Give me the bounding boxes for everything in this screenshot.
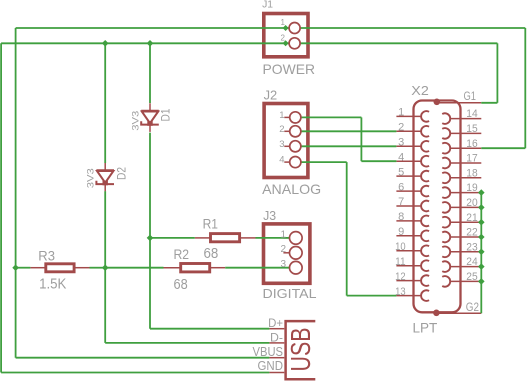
svg-text:5: 5 [398,166,404,178]
svg-text:68: 68 [174,277,188,293]
wire R3 to net D- [90,267,106,269]
X2 pin 5 stub [396,175,421,177]
diode D2 apex junction [103,181,108,186]
junction D+/R1 [147,235,154,242]
junction J1 pin2 [283,40,289,46]
X2 pin 23 contact arc [442,247,450,258]
J3 pin 2 stub [283,252,290,254]
X2 shield pin G2 [437,312,482,314]
svg-text:ANALOG: ANALOG [262,181,321,197]
J3 pin 3 stub [283,267,290,269]
svg-text:D-: D- [270,330,283,344]
USB pin D- stub [269,342,284,344]
junction X2 pin19 [478,189,485,196]
J2 pin 2 circle [290,126,301,137]
X2 pin 3 contact arc [421,141,429,152]
X2 pin 19 contact arc [442,187,450,198]
resistor R2 lead right [210,267,226,269]
X2 pin 7 stub [396,205,421,207]
svg-text:15: 15 [466,123,477,135]
USB pin VBUS stub [269,357,284,359]
junction GND/D1 [147,40,154,47]
X2 pin 24 stub [450,266,481,268]
wire net D+ to USB [150,328,269,330]
J2 pin 2 stub [284,130,290,132]
svg-text:2: 2 [281,244,287,255]
wire net VBUS left vertical [15,28,17,358]
J1 pin 2 circle [289,38,300,49]
X2 pin 12 stub [396,280,421,282]
svg-text:23: 23 [466,241,477,253]
svg-text:8: 8 [398,211,404,223]
wire to X2 pin13 [347,295,397,297]
wire R2 to J3 pin3 [225,267,290,269]
svg-text:9: 9 [398,226,404,238]
wire net GND to USB [1,372,269,374]
connector USB outline [286,321,316,379]
X2 pin 21 contact arc [442,217,450,228]
X2 pin 5 contact arc [421,171,429,182]
diode D1 stub bottom [149,124,151,132]
resistor R3 lead right [74,267,89,269]
wire to X2 pin4 [361,160,396,162]
svg-text:G2: G2 [466,300,479,314]
svg-text:25: 25 [466,271,477,283]
diode D1 cathode zener bar [141,121,159,124]
X2 pin 11 stub [396,265,421,267]
svg-text:3V3: 3V3 [130,111,141,131]
X2 pin 1 contact arc [421,111,429,122]
diode D2 stub top [104,163,106,172]
svg-text:1: 1 [281,229,287,240]
X2 pin 18 stub [450,177,481,179]
resistor R2 lead left [164,267,181,269]
junction D-/R3/R2 [102,264,109,271]
connector X2 body [414,101,461,313]
resistor R1 body [211,234,240,242]
X2 pin 10 contact arc [421,246,429,257]
svg-text:19: 19 [466,182,477,194]
diode D1 anode bar [141,110,159,112]
wire J2 pin1 horizontal [301,116,362,118]
svg-text:1.5K: 1.5K [39,277,67,293]
svg-text:24: 24 [466,256,477,268]
wire net VBUS to USB [16,357,270,359]
svg-text:1: 1 [398,107,404,119]
resistor R1 lead left [195,237,211,239]
junction J1 pin1 [283,25,289,31]
svg-text:4: 4 [279,155,284,166]
X2 pin 25 stub [450,280,481,282]
J3 pin 3 circle [290,261,303,274]
svg-text:X2: X2 [411,84,429,98]
USB pin GND stub [269,372,284,374]
svg-text:USB: USB [285,328,316,372]
wire net D- to USB [105,342,269,344]
wire VBUS to R3 [16,267,31,269]
svg-text:R1: R1 [203,217,218,232]
svg-text:D2: D2 [115,167,129,180]
diode D2 cathode zener bar [96,181,114,184]
X2 shield pin G1 [437,102,481,104]
svg-text:VBUS: VBUS [253,344,284,359]
wire net GND right vertical to G1 [496,43,498,103]
svg-text:17: 17 [466,153,477,165]
X2 pin 13 contact arc [421,290,429,301]
USB pin D+ stub [269,328,284,330]
wire net GND to X2 G1 [481,102,497,104]
svg-text:12: 12 [395,271,406,283]
wire net D+ vertical [149,133,151,329]
wire net VBUS top horizontal [16,27,526,29]
diode D2 triangle [97,171,113,183]
svg-text:16: 16 [466,138,477,150]
svg-text:6: 6 [398,181,404,193]
J2 pin 3 stub [284,145,290,147]
resistor R3 lead left [30,267,45,269]
junction X2 pin21 [478,219,485,226]
X2 pin 14 stub [450,118,481,120]
diode D1 apex junction [147,121,152,126]
svg-text:1: 1 [279,110,284,121]
svg-text:3V3: 3V3 [86,168,97,188]
J3 pin 2 circle [290,247,303,260]
X2 pin 3 stub [396,145,421,147]
junction VBUS/R3 [12,264,19,271]
svg-text:10: 10 [395,241,406,253]
svg-text:2: 2 [398,122,404,134]
svg-text:POWER: POWER [263,61,316,77]
J2 pin 1 circle [290,112,301,123]
J1 pin 1 circle [289,23,300,34]
X2 pin 25 contact arc [442,276,450,287]
svg-text:21: 21 [466,212,477,224]
X2 pin 9 stub [396,235,421,237]
junction X2 pin25 [478,278,485,285]
X2 pin 4 contact arc [421,156,429,167]
X2 pin 15 contact arc [442,128,450,139]
J2 pin 4 circle [290,157,301,168]
wire net GND top horizontal [1,42,497,44]
X2 pin 20 contact arc [442,202,450,213]
diode D2 stub bottom [104,183,106,191]
X2 pin 10 stub [396,250,421,252]
X2 pin 18 contact arc [442,172,450,183]
X2 pin 19 stub [450,192,481,194]
X2 pin 6 contact arc [421,186,429,197]
svg-text:11: 11 [395,256,406,268]
wire net GND to D1 anode [149,43,151,103]
J3 pin 1 stub [283,237,290,239]
wire X2 pins19-25 to G2 vertical [480,193,482,314]
X2 pin 16 stub [450,147,481,149]
X2 pin 4 stub [396,160,421,162]
svg-text:68: 68 [204,246,219,262]
junction GND/D2 [102,40,109,47]
junction X2 pin22 [478,234,485,241]
X2 pin 12 contact arc [421,275,429,286]
X2 pin 11 contact arc [421,260,429,271]
diode D1 triangle [142,112,158,124]
X2 pin 13 stub [396,295,421,297]
svg-text:3: 3 [398,137,404,149]
svg-text:18: 18 [466,167,477,179]
svg-text:R3: R3 [38,248,55,263]
junction X2 pin24 [478,263,485,270]
svg-text:14: 14 [466,108,477,120]
svg-text:4: 4 [398,151,404,163]
wire net VBUS to X2 pin16 [481,147,525,149]
svg-text:3: 3 [279,139,284,150]
svg-text:2: 2 [279,124,284,135]
svg-text:R2: R2 [174,247,190,262]
svg-text:D+: D+ [268,316,283,330]
wire net D- vertical [104,191,106,343]
X2 pin 17 stub [450,162,481,164]
X2 pin 16 contact arc [442,143,450,154]
X2 pin 8 contact arc [421,216,429,227]
connector J3 box [264,224,310,283]
X2 pin 17 contact arc [442,158,450,169]
svg-text:20: 20 [466,197,477,209]
svg-text:D1: D1 [159,108,173,121]
X2 pin 15 stub [450,132,481,134]
svg-text:G1: G1 [464,89,477,103]
svg-text:1: 1 [281,18,286,27]
svg-text:3: 3 [281,259,287,270]
svg-text:J3: J3 [263,209,276,223]
wire net VBUS right vertical [524,28,526,148]
X2 pin 21 stub [450,221,481,223]
diode D2 anode bar [96,169,114,171]
J2 pin 4 stub [284,161,290,163]
resistor R3 body [46,264,74,272]
svg-text:J1: J1 [262,0,273,11]
wire net D+ to R1 [150,237,195,239]
svg-text:LPT: LPT [413,320,438,336]
wire J2 pin4 vertical [346,162,348,296]
svg-text:GND: GND [258,358,284,373]
svg-text:2: 2 [281,33,286,42]
wire net GND left vertical [0,43,2,372]
X2 pin 22 contact arc [442,232,450,243]
X2 pin 6 stub [396,190,421,192]
wire J2 pin4 horizontal [301,161,347,163]
connector J2 box [264,104,308,178]
svg-text:J2: J2 [264,88,278,103]
wire J2 pin1 vertical [360,117,362,161]
svg-text:13: 13 [395,286,406,298]
X2 pin 20 stub [450,206,481,208]
diode D1 stub top [149,103,151,112]
X2 pin 8 stub [396,220,421,222]
svg-text:7: 7 [398,196,404,208]
X2 pin 22 stub [450,236,481,238]
junction X2 pin23 [478,249,485,256]
X2 pin 24 contact arc [442,261,450,272]
X2 pin 23 stub [450,251,481,253]
svg-text:22: 22 [466,227,477,239]
J3 pin 1 circle [290,232,303,245]
wire R1 to J3 pin1 [256,237,290,239]
connector J1 box [264,14,308,57]
svg-text:DIGITAL: DIGITAL [263,287,317,301]
junction X2 pin20 [478,204,485,211]
resistor R2 body [181,264,210,272]
X2 pin 2 contact arc [421,126,429,137]
wire net GND to D2 anode [104,43,106,163]
J2 pin 3 circle [290,141,301,152]
X2 pin 7 contact arc [421,201,429,212]
wire net D- to R2 [105,267,163,269]
wire J2 pin3 to X2 pin3 [301,145,397,147]
J2 pin 1 stub [284,116,290,118]
X2 pin 9 contact arc [421,231,429,242]
resistor R1 lead right [240,237,256,239]
X2 pin 14 contact arc [442,113,450,124]
wire J2 pin2 to X2 pin2 [301,130,397,132]
X2 pin 1 stub [396,115,421,117]
X2 pin 2 stub [396,130,421,132]
